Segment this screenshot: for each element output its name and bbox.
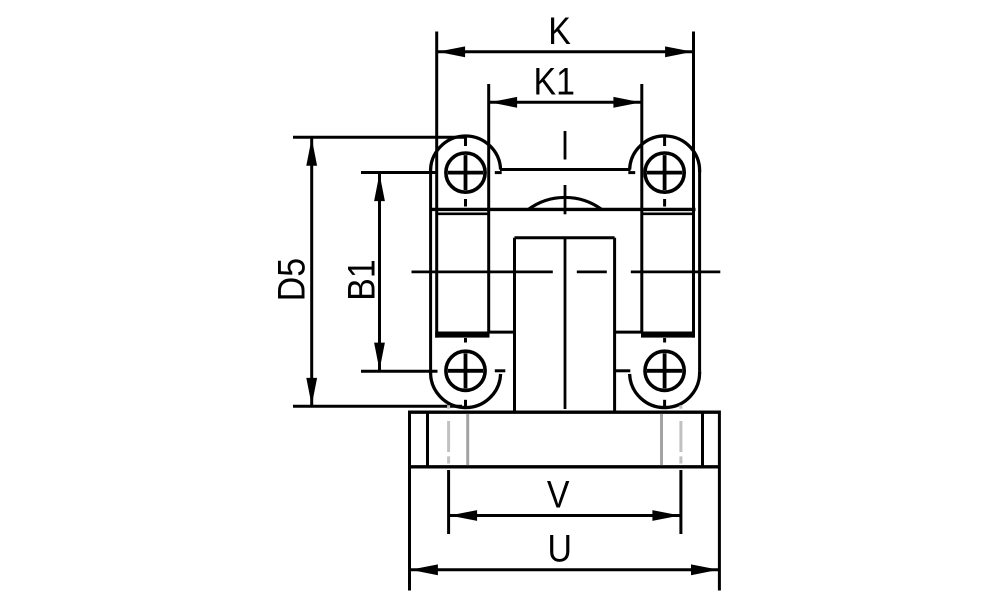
V extension line left <box>447 470 450 534</box>
svg-text:V: V <box>547 474 570 517</box>
svg-text:U: U <box>548 528 572 571</box>
tongue center split line <box>564 238 567 409</box>
pivot centerline dash 3 <box>631 270 721 273</box>
yoke inner edge right / K1 extension line <box>640 84 643 334</box>
right lug outer edge <box>698 173 701 372</box>
shoulder edge <box>431 208 696 211</box>
base plate step edge left <box>426 412 429 467</box>
dimension line D5 <box>306 138 317 406</box>
dimension line V <box>450 510 680 521</box>
hole top-right <box>628 137 684 207</box>
tongue top edge <box>515 236 615 239</box>
right lug top arc <box>630 136 700 173</box>
B1 top extension line / top holes centerline <box>361 171 438 174</box>
hidden hole edge right <box>660 414 663 465</box>
dimension line U <box>410 564 718 575</box>
rear edge right thin <box>615 331 642 334</box>
hole bottom-left <box>446 338 505 408</box>
base plate step edge right <box>701 412 704 467</box>
mounting hole centerline left <box>447 405 450 463</box>
hidden hole edge left <box>466 414 469 465</box>
svg-text:K1: K1 <box>533 60 574 103</box>
mounting hole centerline right <box>679 405 682 463</box>
left lug bottom arc <box>431 371 501 407</box>
D5 top extension line <box>293 136 466 139</box>
hole top-left <box>446 137 502 207</box>
dimension line K <box>438 46 693 57</box>
base plate left edge / U extension line <box>408 411 411 591</box>
base plate bottom edge <box>410 465 720 468</box>
window bottom band right <box>641 332 694 338</box>
yoke outer edge right / K extension line <box>692 32 695 338</box>
svg-text:B1: B1 <box>340 259 383 300</box>
vertical centerline upper dash <box>564 131 567 160</box>
tongue left edge <box>513 238 516 412</box>
bearing dome arc <box>528 197 602 209</box>
D5 bottom extension line <box>293 405 462 408</box>
pivot centerline dash 2 <box>577 270 607 273</box>
base plate top edge <box>410 411 720 414</box>
dimension line K1 <box>490 97 641 108</box>
yoke outer edge left / K extension line <box>435 32 438 338</box>
vertical centerline middle dash <box>564 185 567 214</box>
B1 bottom extension line / bottom holes centerline <box>361 370 438 373</box>
window top edge left <box>437 213 488 216</box>
base plate right edge / U extension line <box>718 411 721 591</box>
tongue right edge <box>613 238 616 412</box>
window top edge right <box>643 213 693 216</box>
hole bottom-right <box>616 338 684 408</box>
dimension line B1 <box>374 173 385 370</box>
window bottom band left <box>435 332 489 338</box>
left lug top arc <box>431 136 501 173</box>
V extension line right <box>679 470 682 534</box>
bearing boss top edge <box>500 168 631 171</box>
pivot centerline dash 1 <box>412 270 553 273</box>
yoke inner edge left / K1 extension line <box>487 84 490 334</box>
right lug bottom arc <box>630 371 700 407</box>
left lug outer edge <box>429 173 432 372</box>
svg-text:K: K <box>548 10 571 53</box>
rear edge left thin <box>489 331 515 334</box>
svg-text:D5: D5 <box>271 258 314 301</box>
